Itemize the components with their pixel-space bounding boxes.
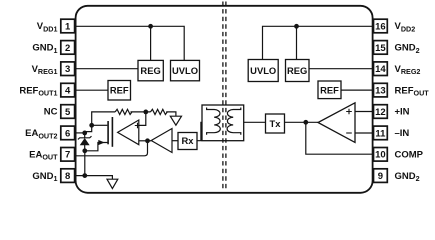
buffer amp A2 (points left) xyxy=(151,129,172,153)
reference REF side2 xyxy=(318,81,341,99)
node Z2 below zener xyxy=(82,148,87,153)
svg-text:COMP: COMP xyxy=(395,150,424,161)
wire node C to amp plus input xyxy=(139,112,146,126)
wire +IN pin12 to A3 xyxy=(355,111,374,113)
op-amp A1 error amp (points left) xyxy=(118,120,139,145)
wire EAOUT pin7 rail to node D xyxy=(76,141,148,156)
wire top feedback rail side1 xyxy=(92,112,176,125)
transformer T1 primary winding xyxy=(207,108,221,135)
wire -IN pin11 to A3 xyxy=(355,132,374,134)
wire REF to REFOUT pin13 xyxy=(341,89,374,91)
svg-text:3: 3 xyxy=(65,64,70,75)
pin 5 box xyxy=(61,105,75,119)
wire EAOUT2 pin6 to node A xyxy=(76,132,85,134)
pin 8 box xyxy=(61,169,75,183)
wire node B to Q1 top xyxy=(92,124,108,126)
pin 12 box xyxy=(374,105,388,119)
UVLO block side2 xyxy=(248,60,278,82)
pin 3 box xyxy=(61,62,75,76)
wire REFOUT1 pin4 to REF xyxy=(76,89,109,91)
svg-text:15: 15 xyxy=(375,43,386,54)
wire VDD2 pin16 to REG/UVLO side2 xyxy=(263,26,374,59)
IC body outline U1 xyxy=(76,6,373,193)
regulator REG side1 xyxy=(138,60,163,80)
svg-text:2: 2 xyxy=(65,43,70,54)
node E xyxy=(303,120,308,125)
svg-text:16: 16 xyxy=(375,21,386,32)
isolation barrier (double dashed line) xyxy=(223,2,226,191)
transformer T1 secondary winding xyxy=(227,108,241,135)
arrow into Q1 gate xyxy=(98,140,104,145)
svg-text:REF: REF xyxy=(110,85,129,96)
wire node D to buffer output xyxy=(148,140,152,142)
svg-text:6: 6 xyxy=(65,128,70,139)
op-amp A3 input amp (points left) xyxy=(318,103,355,143)
pin 16 box xyxy=(374,19,388,33)
pin 10 box xyxy=(374,148,388,162)
svg-text:REG: REG xyxy=(140,65,160,76)
wire GND1 pin8 rail xyxy=(76,176,113,180)
wire VDD1 pin1 to REG/UVLO side1 xyxy=(76,26,185,60)
pin 7 box xyxy=(61,148,75,162)
svg-text:UVLO: UVLO xyxy=(172,65,198,76)
svg-text:13: 13 xyxy=(375,86,386,97)
wire node E to COMP pin10 xyxy=(306,122,374,154)
ground symbol bottom side1 xyxy=(107,179,118,188)
svg-text:9: 9 xyxy=(378,171,383,182)
transmitter Tx block xyxy=(266,114,285,133)
pin 15 box xyxy=(374,41,388,55)
UVLO block side1 xyxy=(171,60,200,80)
svg-text:14: 14 xyxy=(375,64,386,75)
svg-text:10: 10 xyxy=(375,150,386,161)
wire transformer to Tx xyxy=(244,121,266,123)
wire node B jog to node A xyxy=(85,125,92,133)
svg-text:Tx: Tx xyxy=(270,118,282,129)
pin 6 box xyxy=(61,126,75,140)
receiver Rx block xyxy=(178,133,197,150)
plus sign A3 xyxy=(346,109,352,115)
svg-text:Rx: Rx xyxy=(182,135,195,146)
transistor Q1 channel bar xyxy=(111,117,113,147)
svg-text:8: 8 xyxy=(65,171,70,182)
node VDD1 junction side1 xyxy=(148,24,153,29)
plus sign A1 xyxy=(135,123,140,128)
wire buffer to Rx xyxy=(172,140,178,142)
wire Tx to amp output node E xyxy=(285,121,319,123)
node GND1 junction xyxy=(82,173,87,178)
node C divider tap xyxy=(143,110,148,115)
svg-text:7: 7 xyxy=(65,150,70,161)
node A xyxy=(82,131,87,136)
regulator REG side2 xyxy=(286,60,310,82)
wire zener node down to GND1 rail xyxy=(84,151,86,176)
svg-text:REF: REF xyxy=(320,85,339,96)
zener diode D1 xyxy=(78,133,92,151)
resistor R1 xyxy=(115,109,132,114)
pin 4 box xyxy=(61,83,75,97)
svg-text:+IN: +IN xyxy=(395,107,410,118)
wire VREG1 pin3 to REG xyxy=(76,68,139,70)
pin 13 box xyxy=(374,83,388,97)
svg-text:4: 4 xyxy=(65,86,71,97)
svg-text:5: 5 xyxy=(65,107,71,118)
svg-text:12: 12 xyxy=(375,107,386,118)
wire REG to VREG2 pin14 xyxy=(309,68,374,70)
wire zener node to Q1 gate arrow xyxy=(85,143,108,151)
node VDD2 junction side2 xyxy=(294,24,299,29)
svg-text:11: 11 xyxy=(375,128,386,139)
resistor R2 xyxy=(151,109,168,114)
transformer T1 box xyxy=(202,105,244,141)
wire Rx to transformer xyxy=(197,122,202,140)
wire amp minus input to node D xyxy=(139,140,148,142)
node D xyxy=(145,138,150,143)
svg-text:–IN: –IN xyxy=(395,128,410,139)
svg-text:REG: REG xyxy=(287,65,307,76)
reference REF side1 xyxy=(108,81,131,101)
svg-text:NC: NC xyxy=(44,107,58,118)
pin 9 box xyxy=(374,169,388,183)
pin 2 box xyxy=(61,41,75,55)
svg-text:1: 1 xyxy=(65,21,71,32)
transistor Q1 gate bar xyxy=(107,121,109,144)
pin 1 box xyxy=(61,19,75,33)
node B xyxy=(89,123,94,128)
pin 11 box xyxy=(374,126,388,140)
pin 14 box xyxy=(374,62,388,76)
minus sign A3 xyxy=(346,132,352,134)
ground symbol top side1 xyxy=(170,116,181,125)
svg-text:UVLO: UVLO xyxy=(250,65,276,76)
